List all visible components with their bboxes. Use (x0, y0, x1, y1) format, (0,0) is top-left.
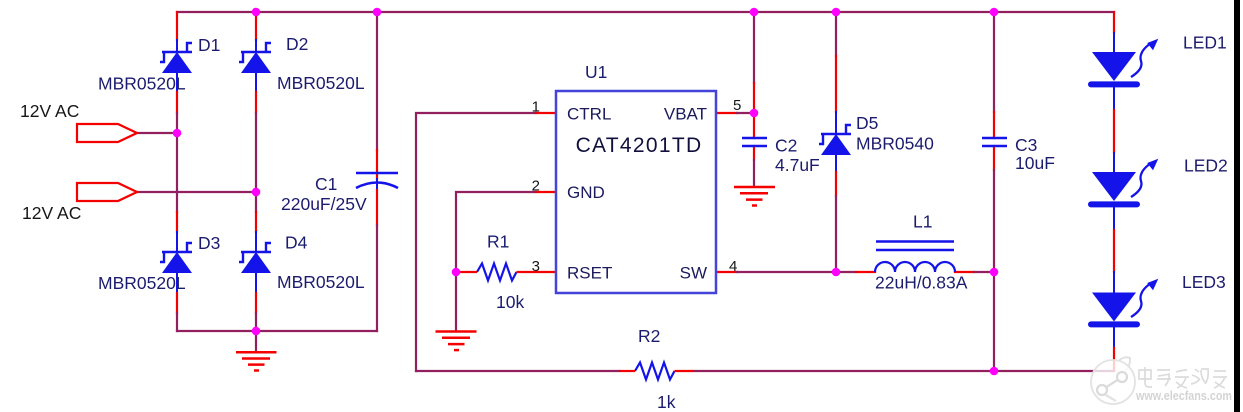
node junction dots (173, 8, 999, 376)
label R1 (487, 232, 509, 252)
label 10k (496, 292, 524, 312)
svg-text:10uF: 10uF (1015, 153, 1055, 173)
wire LED string column (1113, 12, 1115, 371)
watermark text 电子发烧友 (1139, 367, 1227, 388)
resistor R1 (456, 264, 556, 281)
svg-text:CTRL: CTRL (567, 105, 611, 124)
wire D2 column (255, 12, 257, 331)
wire bridge bottom rail (177, 331, 377, 351)
label D5 (856, 113, 878, 133)
label MBR0540 (856, 134, 934, 154)
label MBR0520L D3 (98, 273, 186, 293)
svg-text:4.7uF: 4.7uF (775, 155, 820, 175)
label LED3 (1182, 272, 1226, 292)
svg-text:12V AC: 12V AC (22, 203, 81, 223)
pin 1 (532, 99, 540, 116)
label C3 (1015, 135, 1037, 155)
wire AC input 1 (137, 132, 177, 134)
svg-text:MBR0520L: MBR0520L (98, 273, 186, 293)
label D2 (286, 34, 308, 54)
wire AC input 2 (137, 191, 256, 193)
diode D5 (819, 125, 851, 155)
label MBR0520L D2 (277, 73, 365, 93)
svg-text:10k: 10k (496, 292, 524, 312)
svg-text:LED1: LED1 (1183, 33, 1227, 53)
svg-text:D3: D3 (198, 233, 220, 253)
label VBAT (664, 105, 707, 124)
label 12V AC bottom (22, 203, 81, 223)
label GND (567, 183, 605, 202)
svg-text:D2: D2 (286, 34, 308, 54)
svg-text:1k: 1k (657, 392, 676, 412)
label U1 (585, 62, 607, 82)
pin 2 (532, 178, 540, 195)
pin 5 (733, 97, 741, 114)
svg-text:SW: SW (680, 264, 707, 283)
label 1k (657, 392, 676, 412)
port 12V AC bottom (77, 183, 137, 201)
svg-text:R1: R1 (487, 232, 509, 252)
svg-text:CAT4201TD: CAT4201TD (576, 134, 703, 157)
watermark text www.elecfans.com (1135, 388, 1232, 403)
svg-text:220uF/25V: 220uF/25V (281, 194, 367, 214)
diode D1 (160, 43, 192, 73)
label SW (680, 264, 707, 283)
wire C3 column (993, 12, 995, 371)
pin 4 (729, 258, 737, 275)
wire bottom rail (416, 370, 1114, 372)
wire SW net (716, 271, 994, 273)
label RSET (567, 264, 612, 283)
resistor R2 (619, 363, 693, 380)
label 12V AC top (20, 101, 79, 121)
wire top rail (177, 11, 1114, 13)
wire C1 column (376, 12, 378, 331)
label D1 (198, 35, 220, 55)
LED2 (1091, 159, 1158, 205)
label 4.7uF (775, 155, 820, 175)
svg-text:12V AC: 12V AC (20, 101, 79, 121)
port 12V AC top (77, 124, 137, 142)
svg-text:D1: D1 (198, 35, 220, 55)
black border bar (1234, 0, 1240, 412)
svg-text:MBR0520L: MBR0520L (277, 73, 365, 93)
label 22uH/0.83A (875, 273, 968, 293)
diode D2 (239, 43, 271, 73)
svg-text:2: 2 (532, 178, 540, 195)
svg-text:R2: R2 (638, 326, 660, 346)
svg-text:L1: L1 (913, 212, 932, 232)
svg-text:U1: U1 (585, 62, 607, 82)
watermark logo (1091, 357, 1135, 404)
diode D4 (239, 243, 271, 273)
svg-text:LED3: LED3 (1182, 272, 1226, 292)
label R2 (638, 326, 660, 346)
svg-text:LED2: LED2 (1184, 156, 1228, 176)
label CAT4201TD (576, 134, 703, 157)
svg-text:3: 3 (532, 258, 540, 275)
wire GND net (456, 192, 556, 330)
svg-text:MBR0520L: MBR0520L (277, 272, 365, 292)
wire D5 column (835, 12, 837, 272)
capacitor C3 (982, 138, 1007, 146)
LED3 (1091, 279, 1158, 325)
svg-text:MBR0520L: MBR0520L (98, 74, 186, 94)
svg-text:1: 1 (532, 99, 540, 116)
op-amp U1 body (556, 91, 716, 293)
label 220uF/25V (281, 194, 367, 214)
label C2 (775, 136, 797, 156)
svg-text:C2: C2 (775, 136, 797, 156)
svg-text:D5: D5 (856, 113, 878, 133)
LED1 (1091, 39, 1158, 85)
label MBR0520L D4 (277, 272, 365, 292)
svg-text:22uH/0.83A: 22uH/0.83A (875, 273, 968, 293)
label C1 (315, 174, 337, 194)
label MBR0520L D1 (98, 74, 186, 94)
label D4 (285, 233, 308, 253)
capacitor C2 (742, 138, 767, 146)
svg-text:4: 4 (729, 258, 737, 275)
svg-text:C1: C1 (315, 174, 337, 194)
label LED2 (1184, 156, 1228, 176)
diode D3 (160, 243, 192, 273)
inductor L1 (875, 242, 955, 273)
svg-text:MBR0540: MBR0540 (856, 134, 934, 154)
wire D1 column (176, 12, 178, 331)
label CTRL (567, 105, 611, 124)
label 10uF (1015, 153, 1055, 173)
wire VBAT net (716, 12, 754, 185)
pin 3 (532, 258, 540, 275)
label D3 (198, 233, 220, 253)
capacitor C1 (356, 173, 398, 188)
ground R1 (436, 332, 477, 351)
ground bridge (236, 352, 277, 370)
label LED1 (1183, 33, 1227, 53)
svg-text:D4: D4 (285, 233, 308, 253)
svg-text:www.elecfans.com: www.elecfans.com (1135, 388, 1232, 403)
svg-text:C3: C3 (1015, 135, 1037, 155)
svg-text:RSET: RSET (567, 264, 612, 283)
ground C2 (734, 187, 775, 206)
svg-text:GND: GND (567, 183, 605, 202)
wire CTRL net (416, 113, 556, 371)
label L1 (913, 212, 932, 232)
svg-text:5: 5 (733, 97, 741, 114)
svg-text:VBAT: VBAT (664, 105, 707, 124)
